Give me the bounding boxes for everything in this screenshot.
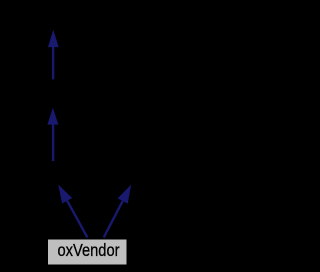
box border+fill (48, 239, 128, 265)
class box oxVendor (48, 239, 128, 265)
arrowhead A4 (118, 185, 132, 204)
shaft A1 (52, 47, 54, 80)
arrow A4 (lower-right diagonal, from oxVendor up-right) (104, 185, 132, 238)
arrowhead A2 (47, 108, 58, 125)
shaft A3 (67, 201, 87, 238)
inheritance graph (Doxygen style), flattened on black (0, 0, 173, 272)
shaft A4 (104, 201, 123, 237)
arrowhead A3 (58, 185, 72, 204)
arrowhead A1 (48, 30, 59, 47)
svg-text:oxVendor: oxVendor (58, 240, 120, 260)
arrow A3 (lower-left diagonal, from oxVendor up-left) (58, 185, 87, 238)
shaft A2 (52, 124, 54, 161)
arrow A2 (middle, vertical) (47, 108, 58, 161)
arrow A1 (topmost, vertical) (48, 30, 59, 80)
